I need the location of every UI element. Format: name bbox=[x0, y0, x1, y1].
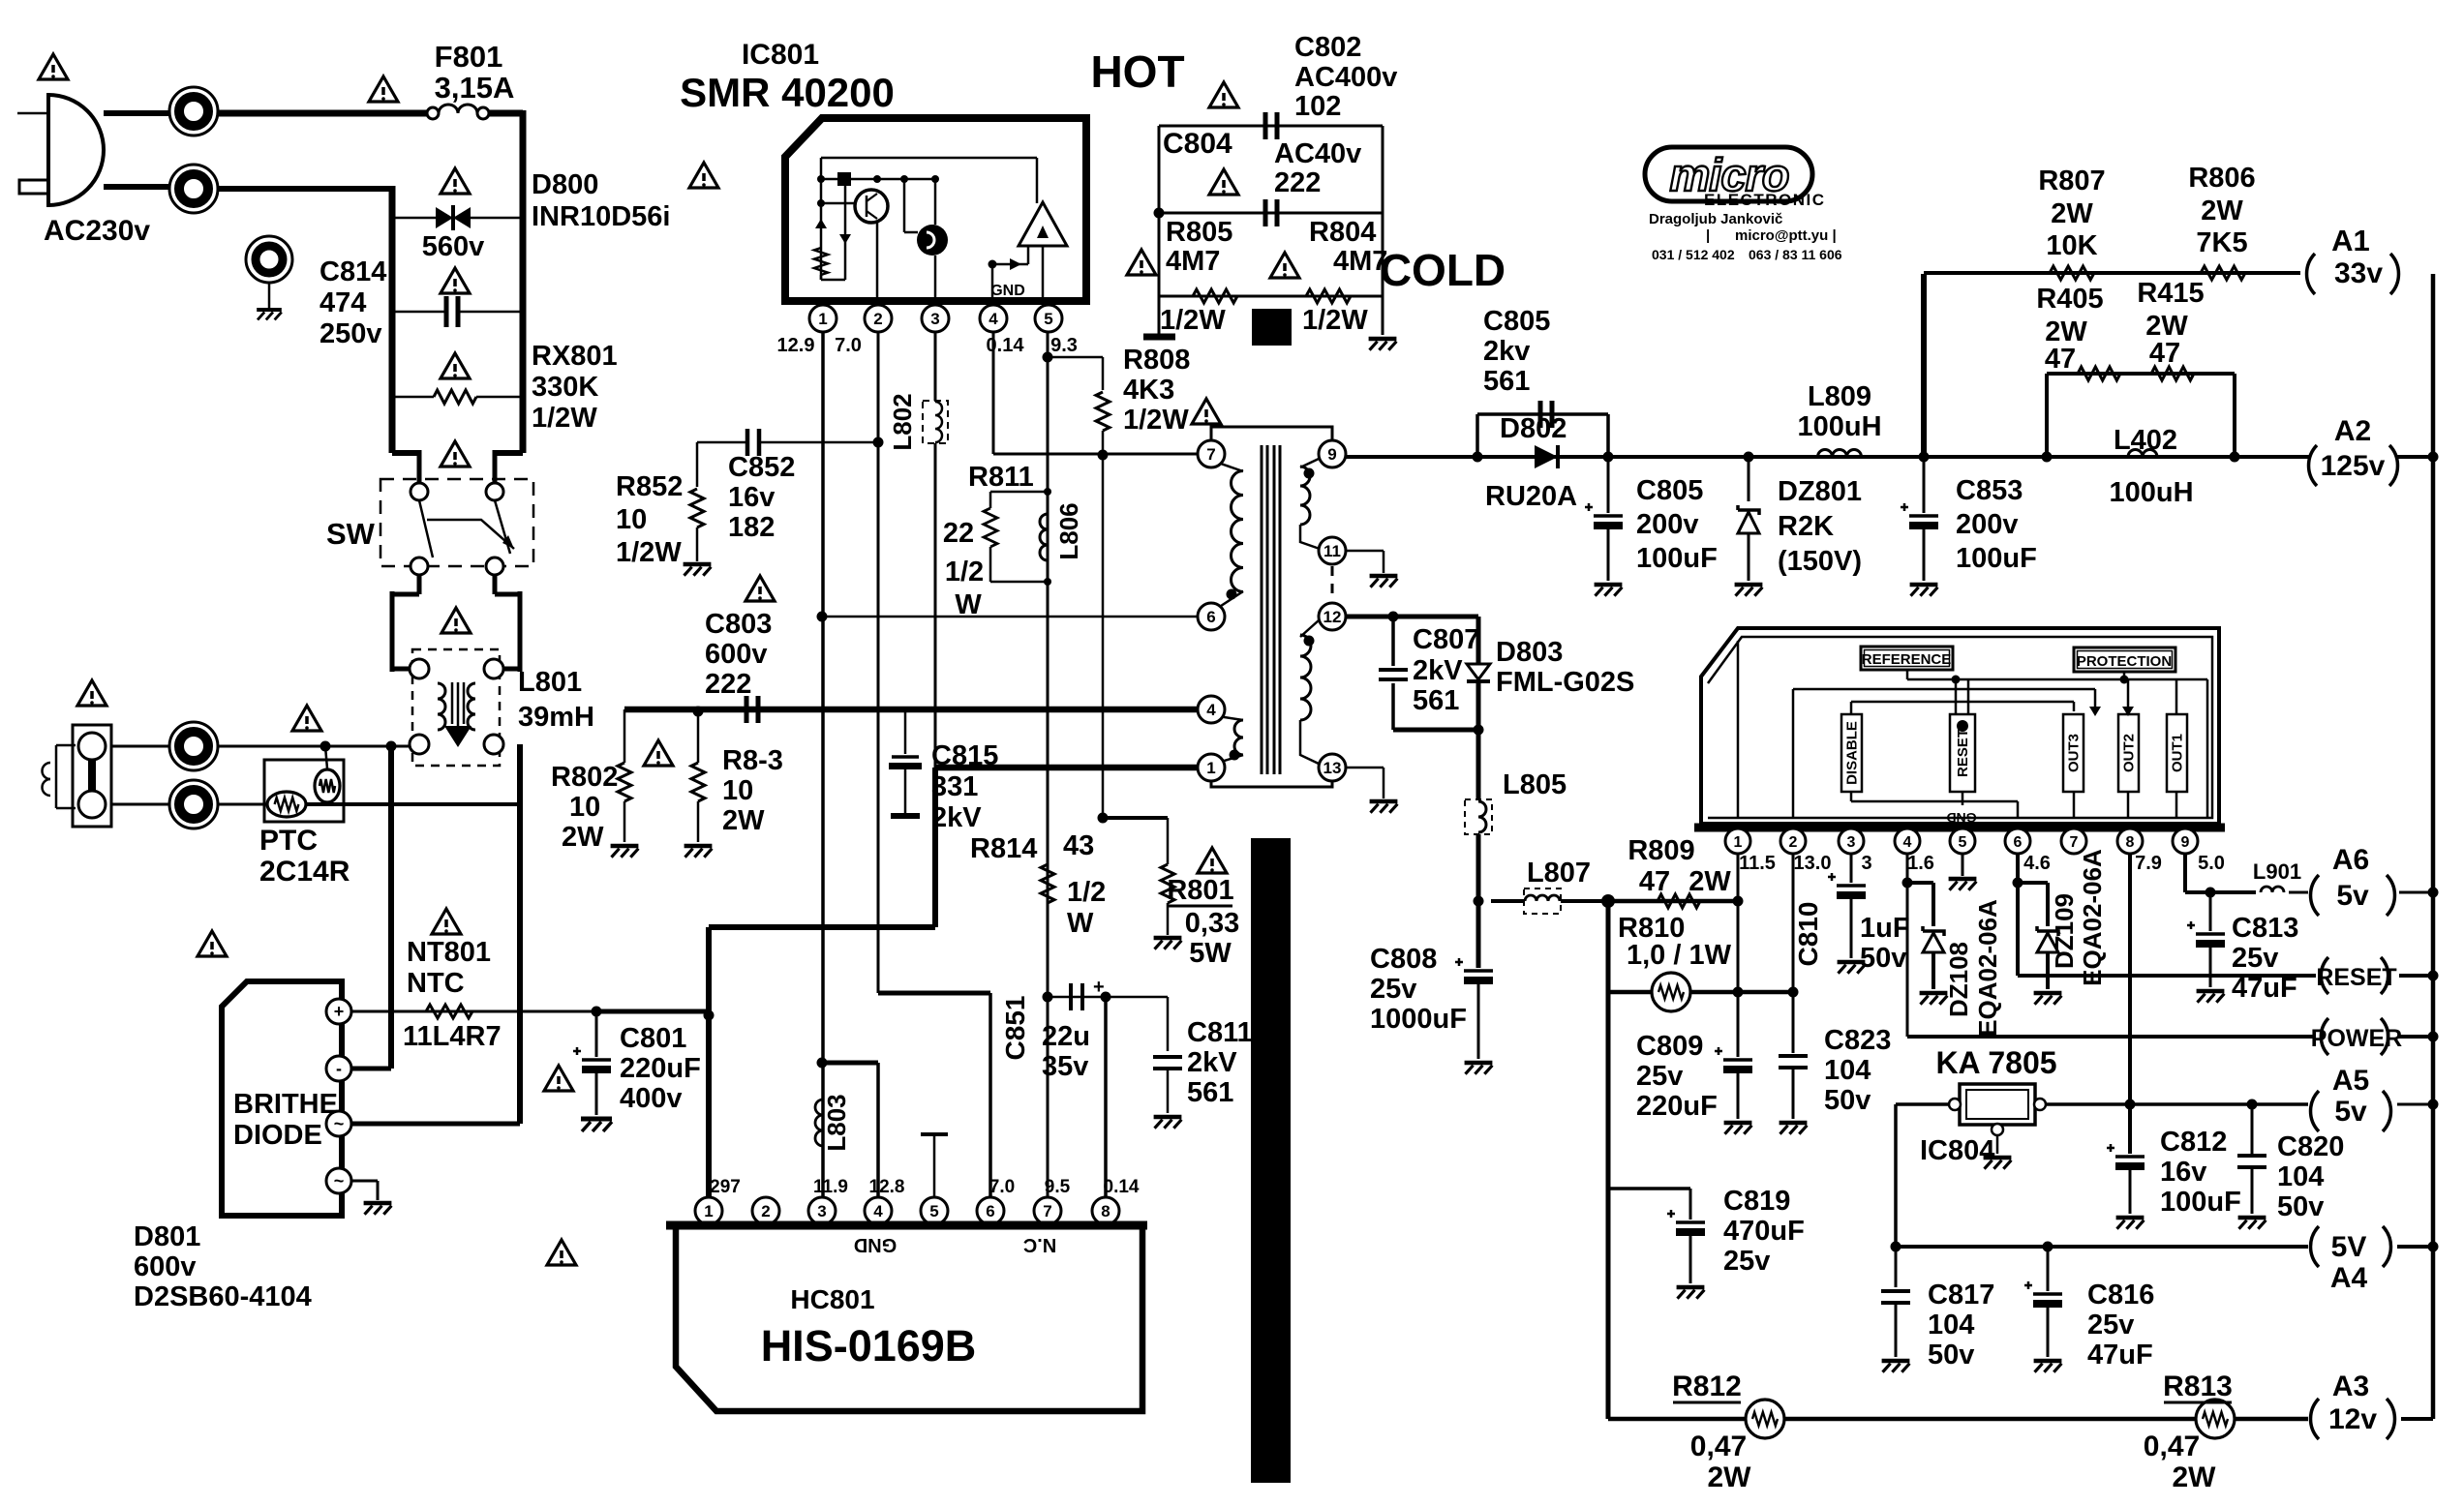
svg-text:125v: 125v bbox=[2321, 450, 2386, 482]
svg-text:2kV: 2kV bbox=[1187, 1047, 1237, 1078]
svg-text:220uF: 220uF bbox=[1636, 1091, 1718, 1122]
svg-text:50v: 50v bbox=[1928, 1340, 1974, 1370]
svg-text:031 / 512 402: 031 / 512 402 bbox=[1652, 247, 1735, 262]
svg-text:L802: L802 bbox=[888, 393, 917, 450]
svg-text:560v: 560v bbox=[422, 231, 485, 262]
svg-text:SW: SW bbox=[326, 517, 376, 551]
svg-text:1/2: 1/2 bbox=[1067, 877, 1106, 908]
svg-text:NTC: NTC bbox=[407, 968, 465, 999]
svg-text:C852: C852 bbox=[728, 452, 795, 483]
svg-text:C817: C817 bbox=[1928, 1280, 1994, 1310]
svg-text:GND: GND bbox=[1946, 810, 1976, 826]
svg-text:PROTECTION: PROTECTION bbox=[2077, 653, 2172, 670]
svg-text:C810: C810 bbox=[1793, 902, 1823, 967]
svg-text:C851: C851 bbox=[1000, 996, 1030, 1061]
svg-text:D802: D802 bbox=[1500, 413, 1567, 444]
svg-text:12.8: 12.8 bbox=[869, 1177, 905, 1197]
svg-text:25v: 25v bbox=[1370, 974, 1416, 1005]
svg-text:2C14R: 2C14R bbox=[259, 856, 350, 888]
svg-text:0,47: 0,47 bbox=[2144, 1431, 2200, 1462]
svg-text:25v: 25v bbox=[2232, 943, 2278, 974]
svg-text:250v: 250v bbox=[319, 318, 382, 349]
svg-text:R807: R807 bbox=[2038, 166, 2105, 196]
svg-text:D2SB60-4104: D2SB60-4104 bbox=[134, 1281, 312, 1312]
svg-text:10: 10 bbox=[616, 504, 647, 535]
svg-text:474: 474 bbox=[319, 287, 366, 318]
svg-text:AC230v: AC230v bbox=[44, 215, 150, 247]
svg-text:A2: A2 bbox=[2334, 415, 2371, 447]
svg-text:DZ801: DZ801 bbox=[1778, 476, 1862, 507]
svg-text:R805: R805 bbox=[1166, 217, 1232, 248]
svg-text:5W: 5W bbox=[1189, 938, 1232, 969]
svg-text:R811: R811 bbox=[968, 462, 1034, 493]
svg-text:11.5: 11.5 bbox=[1739, 853, 1776, 874]
svg-text:W: W bbox=[955, 589, 982, 620]
svg-text:9.3: 9.3 bbox=[1050, 335, 1078, 356]
svg-text:2: 2 bbox=[761, 1202, 770, 1220]
svg-text:OUT2: OUT2 bbox=[2121, 734, 2138, 772]
svg-text:1/2: 1/2 bbox=[945, 557, 984, 587]
svg-text:R813: R813 bbox=[2163, 1370, 2233, 1402]
svg-text:OUT3: OUT3 bbox=[2066, 734, 2083, 772]
svg-text:D801: D801 bbox=[134, 1221, 200, 1252]
svg-text:100uH: 100uH bbox=[1797, 411, 1881, 442]
svg-text:5v: 5v bbox=[2336, 880, 2369, 912]
svg-text:L901: L901 bbox=[2253, 859, 2301, 884]
svg-text:|: | bbox=[1706, 227, 1710, 244]
svg-text:HOT: HOT bbox=[1090, 46, 1184, 97]
svg-text:C814: C814 bbox=[319, 256, 386, 287]
svg-text:2: 2 bbox=[873, 310, 882, 328]
svg-text:N.C: N.C bbox=[1023, 1234, 1056, 1255]
svg-text:50v: 50v bbox=[1824, 1085, 1871, 1116]
svg-text:9: 9 bbox=[1327, 445, 1336, 464]
svg-text:2W: 2W bbox=[1708, 1461, 1752, 1493]
svg-text:470uF: 470uF bbox=[1723, 1216, 1805, 1247]
svg-text:200v: 200v bbox=[1956, 509, 2019, 540]
svg-text:REFERENCE: REFERENCE bbox=[1862, 651, 1952, 668]
svg-text:R804: R804 bbox=[1309, 217, 1376, 248]
svg-text:2kV: 2kV bbox=[931, 802, 982, 833]
svg-text:RESET: RESET bbox=[2316, 964, 2396, 991]
svg-text:2kv: 2kv bbox=[1483, 336, 1530, 367]
svg-text:4: 4 bbox=[1206, 701, 1216, 719]
svg-text:R808: R808 bbox=[1123, 345, 1190, 376]
svg-text:FML-G02S: FML-G02S bbox=[1496, 667, 1634, 698]
svg-text:+: + bbox=[1093, 977, 1105, 998]
svg-text:AC400v: AC400v bbox=[1294, 62, 1397, 93]
svg-text:400v: 400v bbox=[620, 1083, 683, 1114]
svg-text:R415: R415 bbox=[2137, 278, 2204, 309]
svg-text:561: 561 bbox=[1413, 685, 1459, 716]
svg-text:330K: 330K bbox=[532, 372, 598, 403]
svg-text:50v: 50v bbox=[2277, 1191, 2324, 1222]
svg-text:7.0: 7.0 bbox=[835, 335, 862, 356]
svg-text:NT801: NT801 bbox=[407, 937, 491, 968]
svg-text:BRITHE: BRITHE bbox=[233, 1089, 338, 1120]
svg-text:3: 3 bbox=[1861, 853, 1871, 874]
svg-text:2W: 2W bbox=[2173, 1461, 2217, 1493]
svg-text:1uF: 1uF bbox=[1860, 913, 1910, 944]
svg-text:47: 47 bbox=[1639, 866, 1670, 897]
svg-text:200v: 200v bbox=[1636, 509, 1699, 540]
svg-text:A3: A3 bbox=[2332, 1370, 2369, 1402]
svg-text:DZ108: DZ108 bbox=[1944, 942, 1973, 1017]
svg-text:INR10D56i: INR10D56i bbox=[532, 201, 670, 232]
svg-text:22u: 22u bbox=[1042, 1021, 1090, 1052]
svg-text:IC804: IC804 bbox=[1920, 1135, 1994, 1166]
svg-text:12.9: 12.9 bbox=[777, 335, 815, 356]
svg-text:A1: A1 bbox=[2331, 224, 2370, 257]
svg-text:~: ~ bbox=[334, 1171, 345, 1190]
svg-text:L809: L809 bbox=[1808, 381, 1871, 412]
svg-text:C805: C805 bbox=[1483, 306, 1550, 337]
svg-text:4: 4 bbox=[873, 1202, 883, 1220]
svg-text:-: - bbox=[336, 1059, 342, 1078]
svg-text:1: 1 bbox=[818, 310, 827, 328]
svg-text:12v: 12v bbox=[2328, 1403, 2377, 1435]
svg-text:5: 5 bbox=[929, 1202, 938, 1220]
svg-text:39mH: 39mH bbox=[518, 702, 594, 733]
svg-text:7: 7 bbox=[1206, 445, 1215, 464]
svg-text:IC801: IC801 bbox=[742, 39, 819, 71]
svg-text:8: 8 bbox=[1101, 1202, 1110, 1220]
svg-text:5V: 5V bbox=[2331, 1231, 2367, 1263]
svg-text:8: 8 bbox=[2126, 834, 2135, 851]
svg-text:1/2W: 1/2W bbox=[616, 537, 682, 568]
svg-text:100uF: 100uF bbox=[1956, 543, 2037, 574]
svg-text:35v: 35v bbox=[1042, 1051, 1088, 1082]
svg-text:11: 11 bbox=[1323, 542, 1341, 560]
svg-text:1/2W: 1/2W bbox=[1123, 405, 1189, 436]
svg-text:(150V): (150V) bbox=[1778, 546, 1862, 577]
svg-text:47: 47 bbox=[2149, 338, 2180, 369]
svg-text:KA 7805: KA 7805 bbox=[1935, 1045, 2056, 1080]
svg-text:C819: C819 bbox=[1723, 1186, 1790, 1217]
svg-text:C811: C811 bbox=[1187, 1017, 1253, 1048]
svg-text:C816: C816 bbox=[2087, 1280, 2154, 1310]
svg-text:RU20A: RU20A bbox=[1485, 481, 1577, 512]
svg-text:L801: L801 bbox=[518, 667, 582, 698]
svg-text:PTC: PTC bbox=[259, 825, 318, 857]
svg-text:C803: C803 bbox=[705, 609, 772, 640]
svg-text:C801: C801 bbox=[620, 1023, 686, 1054]
svg-text:0,33: 0,33 bbox=[1185, 908, 1239, 939]
svg-text:R2K: R2K bbox=[1778, 511, 1834, 542]
svg-text:10K: 10K bbox=[2046, 230, 2097, 261]
svg-text:micro@ptt.yu |: micro@ptt.yu | bbox=[1735, 227, 1837, 244]
svg-text:R814: R814 bbox=[970, 833, 1037, 864]
svg-text:5v: 5v bbox=[2334, 1096, 2367, 1128]
svg-text:1000uF: 1000uF bbox=[1370, 1004, 1467, 1035]
svg-text:2: 2 bbox=[1789, 834, 1798, 851]
svg-text:4.6: 4.6 bbox=[2023, 853, 2051, 874]
svg-text:47: 47 bbox=[2045, 344, 2076, 375]
svg-text:16v: 16v bbox=[2160, 1157, 2206, 1188]
svg-text:6: 6 bbox=[2014, 834, 2023, 851]
svg-text:2W: 2W bbox=[722, 805, 765, 836]
svg-text:Dragoljub Jankovič: Dragoljub Jankovič bbox=[1649, 211, 1782, 227]
svg-text:A6: A6 bbox=[2332, 844, 2369, 876]
svg-text:A5: A5 bbox=[2332, 1065, 2369, 1097]
svg-text:C853: C853 bbox=[1956, 475, 2023, 506]
svg-text:R806: R806 bbox=[2188, 163, 2255, 194]
svg-text:4K3: 4K3 bbox=[1123, 375, 1174, 406]
svg-text:600v: 600v bbox=[134, 1251, 197, 1282]
svg-text:331: 331 bbox=[931, 771, 978, 802]
svg-text:13.0: 13.0 bbox=[1794, 853, 1832, 874]
svg-text:47uF: 47uF bbox=[2087, 1340, 2153, 1370]
svg-text:297: 297 bbox=[710, 1177, 741, 1197]
svg-text:104: 104 bbox=[1824, 1055, 1871, 1086]
svg-text:R852: R852 bbox=[616, 471, 683, 502]
svg-text:EQA02-06A: EQA02-06A bbox=[2078, 849, 2107, 986]
svg-text:COLD: COLD bbox=[1380, 245, 1506, 295]
svg-text:DIODE: DIODE bbox=[233, 1120, 322, 1151]
svg-text:5: 5 bbox=[1044, 310, 1052, 328]
svg-text:12: 12 bbox=[1323, 608, 1342, 626]
svg-text:22: 22 bbox=[943, 518, 974, 549]
svg-text:1,0 / 1W: 1,0 / 1W bbox=[1627, 940, 1732, 971]
svg-text:W: W bbox=[1067, 908, 1094, 939]
svg-text:OUT1: OUT1 bbox=[2170, 734, 2186, 772]
svg-text:HIS-0169B: HIS-0169B bbox=[761, 1321, 977, 1370]
svg-text:+: + bbox=[334, 1002, 345, 1021]
svg-text:C809: C809 bbox=[1636, 1031, 1703, 1062]
svg-text:R8-3: R8-3 bbox=[722, 745, 783, 776]
svg-text:4M7: 4M7 bbox=[1333, 246, 1387, 277]
svg-text:C805: C805 bbox=[1636, 475, 1703, 506]
svg-text:DZ109: DZ109 bbox=[2050, 893, 2079, 969]
svg-text:1: 1 bbox=[1734, 834, 1743, 851]
svg-text:C823: C823 bbox=[1824, 1025, 1891, 1056]
svg-text:2W: 2W bbox=[562, 822, 604, 853]
svg-text:2W: 2W bbox=[2201, 196, 2243, 226]
svg-text:1/2W: 1/2W bbox=[532, 403, 597, 434]
svg-text:5: 5 bbox=[1959, 834, 1967, 851]
svg-text:C812: C812 bbox=[2160, 1127, 2227, 1158]
svg-text:222: 222 bbox=[705, 669, 751, 700]
svg-text:1.6: 1.6 bbox=[1907, 853, 1934, 874]
svg-text:C808: C808 bbox=[1370, 944, 1437, 975]
svg-text:10: 10 bbox=[569, 792, 600, 823]
svg-text:3: 3 bbox=[817, 1202, 826, 1220]
svg-text:2kV: 2kV bbox=[1413, 655, 1463, 686]
svg-text:GND: GND bbox=[854, 1234, 897, 1255]
svg-text:25v: 25v bbox=[2087, 1310, 2134, 1340]
svg-text:C807: C807 bbox=[1413, 624, 1479, 655]
svg-text:L803: L803 bbox=[822, 1094, 851, 1151]
svg-text:1/2W: 1/2W bbox=[1302, 305, 1368, 336]
svg-text:R405: R405 bbox=[2036, 284, 2103, 315]
svg-text:0.14: 0.14 bbox=[1104, 1177, 1140, 1197]
svg-text:7: 7 bbox=[2070, 834, 2079, 851]
svg-text:063 / 83 11 606: 063 / 83 11 606 bbox=[1749, 247, 1842, 262]
svg-text:600v: 600v bbox=[705, 639, 768, 670]
svg-text:50v: 50v bbox=[1860, 943, 1906, 974]
svg-text:100uH: 100uH bbox=[2109, 477, 2193, 508]
svg-text:R812: R812 bbox=[1672, 1370, 1742, 1402]
svg-text:1: 1 bbox=[1206, 759, 1215, 777]
svg-text:10: 10 bbox=[722, 775, 753, 806]
svg-text:104: 104 bbox=[2277, 1161, 2324, 1192]
svg-text:C813: C813 bbox=[2232, 913, 2298, 944]
svg-text:L806: L806 bbox=[1054, 502, 1083, 559]
svg-text:7: 7 bbox=[1043, 1202, 1051, 1220]
svg-text:561: 561 bbox=[1483, 366, 1530, 397]
svg-text:4: 4 bbox=[989, 310, 998, 328]
svg-text:F801: F801 bbox=[435, 40, 503, 74]
svg-text:EQA02-06A: EQA02-06A bbox=[1973, 899, 2002, 1037]
svg-text:11.9: 11.9 bbox=[813, 1177, 848, 1197]
svg-text:3,15A: 3,15A bbox=[435, 71, 515, 105]
svg-text:7.9: 7.9 bbox=[2135, 853, 2162, 874]
svg-text:SMR 40200: SMR 40200 bbox=[680, 70, 895, 115]
svg-text:C804: C804 bbox=[1163, 128, 1232, 160]
svg-text:7.0: 7.0 bbox=[989, 1177, 1015, 1197]
svg-text:L402: L402 bbox=[2114, 425, 2177, 456]
svg-text:ELECTRONIC: ELECTRONIC bbox=[1704, 191, 1826, 209]
svg-text:561: 561 bbox=[1187, 1077, 1233, 1108]
svg-text:R802: R802 bbox=[551, 762, 618, 793]
svg-text:4M7: 4M7 bbox=[1166, 246, 1220, 277]
svg-text:7K5: 7K5 bbox=[2196, 227, 2247, 258]
svg-text:GND: GND bbox=[990, 283, 1025, 299]
svg-text:5.0: 5.0 bbox=[2198, 853, 2225, 874]
svg-text:2W: 2W bbox=[1688, 866, 1731, 897]
svg-text:43: 43 bbox=[1063, 830, 1094, 861]
svg-text:25v: 25v bbox=[1723, 1246, 1770, 1277]
svg-text:33v: 33v bbox=[2334, 257, 2383, 289]
svg-text:3: 3 bbox=[930, 310, 939, 328]
svg-text:D803: D803 bbox=[1496, 637, 1563, 668]
svg-text:222: 222 bbox=[1274, 167, 1321, 198]
svg-text:L805: L805 bbox=[1503, 769, 1567, 800]
svg-text:AC40v: AC40v bbox=[1274, 138, 1361, 169]
svg-text:3: 3 bbox=[1847, 834, 1856, 851]
svg-text:100uF: 100uF bbox=[1636, 543, 1718, 574]
svg-text:L807: L807 bbox=[1527, 858, 1591, 889]
svg-text:1: 1 bbox=[704, 1202, 713, 1220]
svg-text:104: 104 bbox=[1928, 1310, 1974, 1340]
svg-text:6: 6 bbox=[986, 1202, 994, 1220]
svg-text:1/2W: 1/2W bbox=[1160, 305, 1226, 336]
svg-text:R801: R801 bbox=[1167, 875, 1233, 906]
svg-text:~: ~ bbox=[334, 1114, 345, 1133]
svg-text:RX801: RX801 bbox=[532, 341, 618, 372]
svg-text:16v: 16v bbox=[728, 482, 775, 513]
svg-text:220uF: 220uF bbox=[620, 1053, 701, 1084]
svg-text:2W: 2W bbox=[2051, 198, 2093, 229]
svg-text:9.5: 9.5 bbox=[1045, 1177, 1071, 1197]
svg-text:D800: D800 bbox=[532, 169, 598, 200]
svg-text:DISABLE: DISABLE bbox=[1844, 721, 1861, 785]
svg-text:6: 6 bbox=[1206, 608, 1215, 626]
svg-text:25v: 25v bbox=[1636, 1061, 1683, 1092]
svg-text:4: 4 bbox=[1903, 834, 1912, 851]
svg-text:0,47: 0,47 bbox=[1690, 1431, 1747, 1462]
svg-text:182: 182 bbox=[728, 512, 775, 543]
svg-text:C820: C820 bbox=[2277, 1131, 2344, 1162]
svg-text:HC801: HC801 bbox=[790, 1284, 874, 1314]
svg-text:11L4R7: 11L4R7 bbox=[403, 1021, 502, 1052]
svg-text:A4: A4 bbox=[2330, 1262, 2368, 1294]
svg-text:R809: R809 bbox=[1627, 835, 1694, 866]
svg-text:13: 13 bbox=[1323, 759, 1342, 777]
svg-text:102: 102 bbox=[1294, 91, 1341, 122]
svg-text:9: 9 bbox=[2181, 834, 2190, 851]
svg-text:C802: C802 bbox=[1294, 32, 1361, 63]
svg-text:RESET: RESET bbox=[1955, 729, 1971, 777]
svg-text:100uF: 100uF bbox=[2160, 1187, 2241, 1218]
svg-text:POWER: POWER bbox=[2311, 1025, 2402, 1052]
